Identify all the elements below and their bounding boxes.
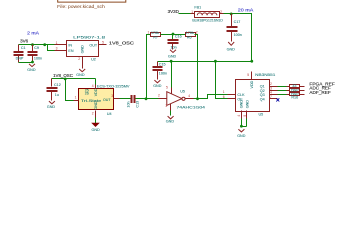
svg-text:4: 4 [237,115,241,117]
svg-text:IN: IN [68,44,72,48]
wire 3V3D power rail [158,61,252,63]
wire 1V8_OSC rail [52,78,96,80]
svg-text:Q4: Q4 [260,97,265,101]
svg-text:GND: GND [92,128,101,132]
svg-text:6: 6 [223,95,225,99]
svg-text:1: 1 [148,30,150,34]
svg-text:U5: U5 [259,113,264,117]
svg-text:100n: 100n [159,71,167,75]
pin 5 VDD [247,72,251,80]
svg-text:1V8_OSC: 1V8_OSC [109,40,135,45]
clock buffer U5 NB3N551 [236,73,276,117]
pin 1 IN [55,41,67,45]
svg-text:GND: GND [245,100,249,109]
svg-text:10n: 10n [171,46,177,50]
node junction bias tap [145,97,148,100]
wire Q2 to R16b [278,90,287,92]
svg-text:GND: GND [166,119,175,123]
svg-text:BLM18PG121SN1D: BLM18PG121SN1D [192,18,223,22]
no-connect X (Q4) [276,98,279,101]
wire gnd tie U5 [242,126,247,128]
node junction osc pin1 tap [64,78,67,81]
svg-text:170k: 170k [151,31,159,35]
pin 2 Q1 [270,82,278,86]
svg-text:LP5907-1.8: LP5907-1.8 [73,36,105,40]
svg-text:ADF_REF: ADF_REF [309,90,331,95]
svg-text:ECS-TXO-3225MV: ECS-TXO-3225MV [97,84,130,88]
svg-text:C17: C17 [234,20,241,24]
svg-text:1: 1 [223,90,225,94]
svg-text:1: 1 [191,10,193,14]
wire C13 to inverter input [136,98,159,100]
svg-text:4: 4 [92,84,94,88]
svg-text:1: 1 [56,41,58,45]
svg-text:DNP: DNP [16,56,24,60]
resistor R6 [186,30,198,39]
wire Q1 to R16a [278,86,287,88]
svg-text:VDD: VDD [250,80,254,88]
svg-text:Tri-State: Tri-State [81,99,101,103]
svg-text:GND: GND [237,134,246,138]
pin 3 OUT [111,94,119,98]
wire osc pin1 riser [66,79,74,101]
svg-text:FB1: FB1 [194,6,201,10]
svg-text:C12: C12 [54,83,61,87]
wire R6 feedback riser [195,35,198,99]
svg-text:GND: GND [27,68,36,72]
node junction gnd tie [31,61,34,64]
svg-text:3: 3 [111,94,113,98]
svg-text:R6: R6 [187,35,192,39]
svg-text:4: 4 [188,94,190,98]
node junction feedback tap [196,97,199,100]
hierarchical sheet outline fragment (bottom edge of sheet) [58,0,126,2]
svg-text:U5: U5 [180,90,185,94]
svg-text:26: 26 [85,91,89,95]
node junction OE riser tap [214,60,217,63]
capacitor C9 [28,45,43,63]
pin 4 GND (bottom left) [237,111,241,127]
inverter U5 74AHC1G04 [167,90,205,110]
pin 2 GND [78,57,82,69]
svg-text:NB3N551: NB3N551 [255,73,275,77]
svg-text:GND: GND [153,84,162,88]
capacitor C16 [168,35,182,50]
svg-text:CLK: CLK [237,93,245,97]
svg-text:10n: 10n [126,101,130,107]
wire gnd tie C1-C9 [19,62,33,64]
svg-text:VDD: VDD [94,88,98,96]
pin 1 Tri-State [74,96,79,101]
svg-text:170k: 170k [186,31,194,35]
svg-text:2: 2 [196,30,198,34]
pin 3 Q2 [270,86,278,90]
pin 4 Q3 [270,91,278,95]
svg-text:5: 5 [166,86,168,90]
resistor R7 [148,30,161,39]
ground GND (C1/C9) [27,64,36,72]
svg-text:EN: EN [68,49,73,53]
svg-text:OUT: OUT [89,44,98,48]
svg-text:GND: GND [80,45,84,54]
svg-text:2: 2 [78,57,80,61]
svg-text:C16: C16 [175,35,182,39]
svg-text:3: 3 [56,47,58,51]
svg-text:OUT: OUT [103,98,111,102]
svg-text:3V3D: 3V3D [168,9,180,14]
node junction VDD drop [250,60,253,63]
ground GND (C12) [47,101,56,109]
svg-text:100n: 100n [234,33,242,37]
svg-text:GND: GND [47,105,56,109]
svg-text:GND: GND [94,101,98,110]
svg-text:2: 2 [92,111,94,115]
svg-text:U2: U2 [91,58,96,62]
svg-text:U4: U4 [107,112,112,116]
wire FB1 to 3V3D drop [224,14,252,62]
node junction EN tap [43,43,46,46]
sheet file label [57,4,105,9]
pin 4 output (inverter) [186,94,194,99]
pin 4 VDD (top) [92,84,96,89]
pin 6 OE [223,95,236,99]
svg-text:GND: GND [227,47,236,51]
wire R7 to C16 node [161,34,186,36]
svg-text:5: 5 [102,40,104,44]
capacitor C12 [47,79,61,101]
wire 3V3D feed [179,13,191,15]
capacitor C13 (series) [126,95,139,108]
svg-text:GND: GND [168,54,177,58]
svg-text:R7: R7 [153,35,158,39]
resistor R16b 33 [287,88,305,92]
ground GND (U4, filled arrow) [92,123,101,132]
pin 2 GND (bottom) [92,111,96,124]
svg-text:GND: GND [240,100,244,109]
resistor R16a 33 [287,84,305,88]
node junction C17 tap [230,13,233,16]
capacitor C17 [227,14,242,42]
pin 9 EP (bottom right) [243,111,247,127]
resistor R16c 33 [287,93,305,100]
svg-text:C13: C13 [136,101,140,108]
svg-text:1V8_OSC: 1V8_OSC [53,73,74,78]
oscillator U4 ECS-TXO-3225 [79,84,131,116]
svg-text:C1: C1 [21,46,26,50]
ferrite bead FB1 [191,6,224,23]
ground GND (U5 inverter) [166,116,175,123]
wire bias riser [147,35,151,99]
pin 7 Q4 (no connect) [270,95,278,99]
pin 1 CLK [223,90,236,94]
svg-text:2: 2 [220,10,222,14]
pin 3 GND (inverter) [165,104,170,116]
pin 2 input (inverter) [158,94,167,99]
svg-text:C9: C9 [34,46,39,50]
svg-text:2 mA: 2 mA [27,30,39,35]
wire inverter out to CLK [194,95,228,99]
svg-text:9: 9 [243,115,247,117]
wire 3V6 rail [19,44,55,46]
pin 3 EN [55,47,67,51]
ground GND (U2) [76,69,85,77]
svg-text:3: 3 [165,104,167,108]
node junction U5 gnd [240,125,243,128]
svg-text:1u: 1u [55,93,59,97]
wire OE riser [216,62,228,99]
node junction C9 tap [31,43,34,46]
capacitor C1 [14,45,26,63]
svg-text:1: 1 [75,96,77,100]
svg-text:7: 7 [270,95,272,99]
wire Q3 to R16c [278,94,287,96]
svg-text:2: 2 [158,94,160,98]
svg-text:74AHC1G04: 74AHC1G04 [177,106,206,110]
ground GND (U5 buffer) [237,129,246,138]
wire osc out to C13 [120,98,131,100]
svg-text:100n: 100n [34,56,42,60]
svg-text:C15: C15 [159,62,166,66]
svg-text:5: 5 [247,73,249,77]
wire osc EN riser [95,79,97,85]
ground GND (C17) [227,42,236,51]
regulator U2 LP5907 [67,36,106,62]
wire EN jog [48,45,55,51]
pin 5 VCC (inverter) [166,62,172,94]
svg-text:R16: R16 [291,95,298,99]
svg-text:File: power.kicad_sch: File: power.kicad_sch [57,4,105,9]
svg-text:20 mA: 20 mA [238,8,254,13]
svg-text:3V6: 3V6 [20,39,29,44]
ground GND (C15) [153,80,162,88]
capacitor C15 [153,62,168,80]
pin 5 OUT [99,40,107,44]
ground GND (C16) [168,50,177,59]
svg-text:GND: GND [76,73,85,77]
node junction C16 tap [172,33,175,36]
node junction inverter VCC tap [170,60,173,63]
